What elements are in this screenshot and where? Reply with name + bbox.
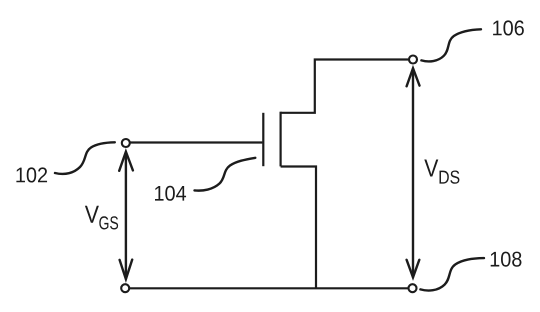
node bottom-left terminal circle — [121, 284, 129, 292]
node 108 terminal circle — [409, 284, 417, 292]
leader line to label 106 — [421, 29, 481, 61]
label 104 — [155, 186, 186, 201]
label 106 — [493, 20, 524, 35]
wire source run: lead, vertical drop to bottom rail — [281, 167, 316, 289]
node 106 terminal circle — [409, 56, 417, 64]
leader line to label 108 — [420, 258, 484, 290]
VDS measurement arrow (double-headed) — [407, 68, 420, 277]
transistor Q (MOSFET) gate bar — [262, 113, 264, 166]
label 102 — [16, 167, 47, 182]
VGS measurement arrow (double-headed) — [119, 152, 133, 279]
node 102 terminal circle — [122, 139, 130, 147]
leader line to label 104 — [195, 158, 256, 191]
wire gate horizontal (node 102 to gate) — [130, 141, 262, 143]
label VDS — [424, 160, 438, 177]
transistor Q channel bar — [280, 112, 282, 167]
leader line to label 102 — [55, 142, 115, 174]
wire bottom rail — [130, 287, 408, 289]
label VGS — [85, 206, 99, 223]
wire drain run: lead, vertical riser, top rail to node 106 — [281, 60, 409, 113]
label 108 — [491, 252, 522, 267]
